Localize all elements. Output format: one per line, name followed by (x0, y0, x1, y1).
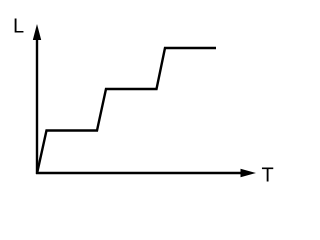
svg-text:T: T (262, 165, 274, 187)
svg-text:L: L (13, 15, 24, 37)
